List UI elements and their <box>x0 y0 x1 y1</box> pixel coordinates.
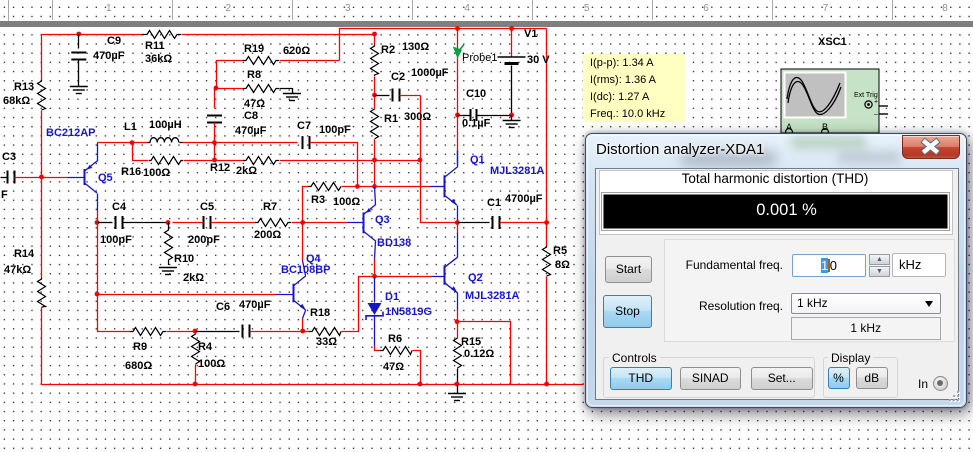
svg-text:MJL3281A: MJL3281A <box>490 165 544 177</box>
svg-text:200pF: 200pF <box>188 234 220 246</box>
svg-text:R13: R13 <box>14 81 34 93</box>
svg-text:C7: C7 <box>297 120 311 132</box>
svg-text:100Ω: 100Ω <box>333 196 360 208</box>
svg-text:R14: R14 <box>14 248 35 260</box>
svg-text:47kΩ: 47kΩ <box>4 264 31 276</box>
svg-text:100Ω: 100Ω <box>143 167 170 179</box>
svg-text:R12: R12 <box>210 162 230 174</box>
svg-text:R10: R10 <box>174 253 194 265</box>
svg-text:Q3: Q3 <box>375 214 390 226</box>
svg-text:300Ω: 300Ω <box>404 111 431 123</box>
svg-text:30 V: 30 V <box>527 54 550 66</box>
svg-text:_: _ <box>873 109 878 116</box>
svg-text:C9: C9 <box>107 35 121 47</box>
svg-text:R1: R1 <box>384 113 398 125</box>
svg-text:130Ω: 130Ω <box>402 41 429 53</box>
svg-text:BD138: BD138 <box>377 237 411 249</box>
svg-text:R5: R5 <box>553 245 567 257</box>
svg-text:100µH: 100µH <box>149 119 182 131</box>
svg-text:470µF: 470µF <box>235 125 267 137</box>
svg-text:D1: D1 <box>385 291 399 303</box>
svg-text:BC212AP: BC212AP <box>46 127 96 139</box>
svg-text:R6: R6 <box>388 333 402 345</box>
svg-text:470µF: 470µF <box>239 299 271 311</box>
svg-text:A: A <box>786 122 792 132</box>
svg-text:V1: V1 <box>524 28 537 40</box>
svg-text:R19: R19 <box>244 43 264 55</box>
svg-text:R9: R9 <box>133 341 147 353</box>
svg-text:C4: C4 <box>112 201 127 213</box>
svg-text:R15: R15 <box>461 336 481 348</box>
svg-text:R11: R11 <box>145 40 165 52</box>
svg-text:1N5819G: 1N5819G <box>385 306 432 318</box>
svg-text:0.1µF: 0.1µF <box>462 118 491 130</box>
svg-text:0.12Ω: 0.12Ω <box>464 348 494 360</box>
svg-text:33Ω: 33Ω <box>316 336 337 348</box>
svg-text:C8: C8 <box>244 110 258 122</box>
svg-text:R8: R8 <box>247 69 261 81</box>
svg-text:100pF: 100pF <box>319 124 351 136</box>
svg-text:R4: R4 <box>198 341 213 353</box>
svg-text:C6: C6 <box>216 301 230 313</box>
svg-text:MJL3281A: MJL3281A <box>465 290 519 302</box>
svg-text:Q1: Q1 <box>470 154 485 166</box>
svg-text:470µF: 470µF <box>93 50 125 62</box>
svg-text:Q5: Q5 <box>98 172 113 184</box>
svg-text:R18: R18 <box>310 307 330 319</box>
svg-text:C1: C1 <box>487 197 501 209</box>
svg-text:R2: R2 <box>381 44 395 56</box>
svg-text:C5: C5 <box>200 201 214 213</box>
svg-text:+: + <box>874 99 878 106</box>
svg-text:C2: C2 <box>391 71 405 83</box>
svg-text:F: F <box>1 189 8 201</box>
svg-text:68kΩ: 68kΩ <box>3 95 30 107</box>
svg-text:36kΩ: 36kΩ <box>145 53 172 65</box>
svg-text:200Ω: 200Ω <box>254 229 281 241</box>
svg-text:47Ω: 47Ω <box>244 98 265 110</box>
svg-text:R3: R3 <box>311 194 325 206</box>
svg-text:2kΩ: 2kΩ <box>236 165 257 177</box>
svg-text:4700µF: 4700µF <box>505 193 543 205</box>
svg-text:100Ω: 100Ω <box>198 358 225 370</box>
svg-text:620Ω: 620Ω <box>283 45 310 57</box>
svg-text:1000µF: 1000µF <box>411 67 449 79</box>
svg-text:B: B <box>822 122 828 132</box>
svg-text:100pF: 100pF <box>100 234 132 246</box>
svg-text:C3: C3 <box>2 151 16 163</box>
svg-text:2kΩ: 2kΩ <box>183 272 204 284</box>
svg-text:8Ω: 8Ω <box>555 259 570 271</box>
svg-text:L1: L1 <box>124 121 137 133</box>
svg-text:680Ω: 680Ω <box>125 360 152 372</box>
svg-text:BC108BP: BC108BP <box>281 264 331 276</box>
svg-text:Q2: Q2 <box>468 272 483 284</box>
svg-text:R7: R7 <box>263 201 277 213</box>
svg-text:47Ω: 47Ω <box>383 361 404 373</box>
svg-text:XSC1: XSC1 <box>818 36 847 48</box>
svg-text:C10: C10 <box>466 88 486 100</box>
svg-text:R16: R16 <box>121 166 141 178</box>
svg-text:Probe1: Probe1 <box>462 52 497 64</box>
